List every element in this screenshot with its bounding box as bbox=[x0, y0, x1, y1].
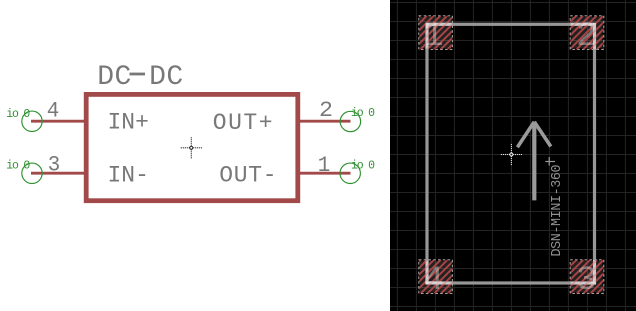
pad P$1 top-left bbox=[419, 16, 453, 56]
svg-text:io 0: io 0 bbox=[6, 108, 30, 121]
svg-text:2: 2 bbox=[576, 18, 596, 56]
pin 1 circle bbox=[340, 163, 360, 183]
svg-text:3: 3 bbox=[576, 262, 596, 300]
symbol origin cross bbox=[181, 137, 202, 158]
package outline rectangle bbox=[427, 24, 595, 283]
pin 4 circle bbox=[22, 111, 42, 131]
svg-text:io 0: io 0 bbox=[351, 160, 375, 173]
svg-text:4: 4 bbox=[423, 262, 443, 300]
symbol box U1 bbox=[86, 94, 298, 200]
wire pin 1 bbox=[298, 172, 351, 175]
svg-text:DC DC: DC DC bbox=[97, 62, 183, 93]
pad P$3 bottom-right bbox=[570, 260, 604, 300]
svg-text:2: 2 bbox=[319, 98, 333, 123]
svg-text:OUT-: OUT- bbox=[219, 162, 277, 188]
svg-text:OUT+: OUT+ bbox=[213, 110, 274, 136]
svg-text:IN-: IN- bbox=[108, 162, 149, 188]
footprint grid bbox=[390, 0, 636, 311]
wire pin 4 bbox=[31, 120, 87, 123]
svg-text:3: 3 bbox=[48, 152, 61, 177]
right footprint panel background bbox=[390, 0, 636, 311]
svg-text:io 0: io 0 bbox=[351, 107, 375, 120]
wire pin 3 bbox=[31, 172, 87, 175]
left schematic panel background bbox=[0, 0, 390, 311]
pin 3 circle bbox=[22, 163, 42, 183]
svg-text:DSN-MINI-360: DSN-MINI-360 bbox=[550, 165, 565, 257]
pin 2 circle bbox=[340, 111, 360, 131]
wire pin 2 bbox=[298, 120, 351, 123]
pad P$4 bottom-left bbox=[419, 260, 453, 300]
svg-text:1: 1 bbox=[318, 153, 331, 178]
svg-text:4: 4 bbox=[47, 98, 60, 123]
pad P$2 top-right bbox=[570, 16, 604, 56]
text anchor mark bbox=[545, 157, 555, 165]
svg-text:io 0: io 0 bbox=[6, 160, 30, 173]
svg-text:IN+: IN+ bbox=[108, 110, 149, 136]
footprint origin crosshair bbox=[501, 144, 522, 165]
orientation arrow bbox=[517, 122, 550, 201]
svg-text:1: 1 bbox=[423, 18, 443, 56]
